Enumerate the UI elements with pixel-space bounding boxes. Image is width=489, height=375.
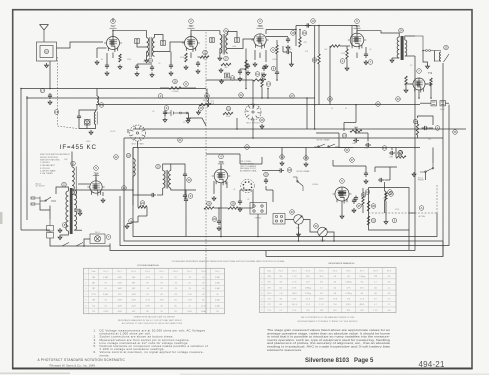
ground battery: [187, 116, 191, 121]
wire: [213, 181, 215, 194]
wire V2 plate to T2: [191, 31, 220, 35]
ground: [197, 110, 201, 115]
ground R1: [118, 65, 122, 70]
capacitor: [365, 143, 371, 147]
label socket note: [240, 160, 257, 173]
svg-text:33: 33: [291, 210, 294, 214]
resistor R38 reference: [388, 190, 393, 195]
ground V3 cathode: [253, 62, 257, 67]
svg-text:23: 23: [157, 164, 160, 168]
tube V8 reference: [417, 69, 422, 74]
wire: [206, 89, 208, 99]
resistor R21b reference: [226, 106, 231, 111]
resistor: [245, 60, 247, 70]
svg-text:Pin 1: Pin 1: [279, 270, 283, 272]
padder trimmer C6b: [85, 120, 91, 126]
ground C19: [220, 79, 224, 84]
IF transformer T2 primary: [220, 35, 222, 54]
junction: [298, 240, 300, 242]
capacitor C8 reference: [271, 66, 276, 71]
svg-text:Pin 2: Pin 2: [292, 270, 296, 272]
svg-text:4.7: 4.7: [320, 287, 323, 289]
wire: [220, 164, 222, 170]
wire C11 tap: [137, 44, 147, 48]
wire: [303, 220, 317, 233]
junction: [20, 88, 22, 90]
svg-text:40: 40: [246, 145, 249, 149]
wire: [298, 224, 300, 241]
svg-text:7B7: 7B7: [188, 24, 194, 28]
wire: [395, 148, 397, 158]
svg-text:103V: 103V: [187, 311, 192, 313]
svg-text:11: 11: [256, 72, 259, 76]
wire: [184, 178, 186, 193]
svg-text:103V: 103V: [117, 277, 122, 279]
ground C20: [238, 77, 242, 82]
tube V5 7B8: [87, 177, 104, 195]
wire: [97, 47, 107, 49]
IF transformer T1 secondary: [152, 38, 154, 57]
wire left rail: [20, 89, 22, 231]
wire: [339, 147, 353, 149]
wire: [252, 118, 254, 138]
ground T4 sec: [78, 211, 82, 216]
capacitor C38 reference: [357, 204, 362, 209]
svg-text:22: 22: [204, 51, 207, 55]
svg-text:13: 13: [383, 146, 386, 150]
capacitor C35 reference: [398, 151, 403, 156]
node 13: [382, 146, 387, 151]
wire AVC line: [206, 79, 253, 81]
svg-text:24: 24: [400, 28, 403, 32]
wire: [137, 148, 139, 208]
wire: [266, 189, 273, 191]
resistor: [185, 53, 187, 62]
wire: [299, 30, 301, 38]
phono jack plate J2: [250, 203, 267, 215]
svg-text:16: 16: [174, 80, 177, 84]
svg-text:Pin 5: Pin 5: [333, 270, 337, 272]
svg-text:20: 20: [331, 108, 333, 110]
wire: [420, 102, 431, 104]
svg-text:150: 150: [320, 310, 323, 312]
tube V4 7C5: [348, 30, 367, 50]
wire T3 to rail: [414, 56, 416, 105]
wire: [406, 83, 413, 85]
svg-text:7: 7: [261, 310, 262, 312]
ground T3: [390, 58, 394, 63]
tube V1 reference: [111, 19, 116, 24]
wire: [327, 232, 334, 241]
resistor: [200, 56, 209, 58]
junction: [261, 97, 263, 99]
svg-text:2.2: 2.2: [388, 304, 391, 306]
ground S5: [412, 172, 416, 177]
capacitor: [423, 126, 429, 130]
wire: [102, 192, 104, 196]
wire: [160, 87, 169, 89]
svg-text:Pin 7: Pin 7: [187, 271, 191, 273]
node 31: [345, 148, 350, 153]
ground V5: [101, 198, 105, 203]
svg-text:Tube: Tube: [267, 270, 271, 272]
coil: [397, 37, 399, 58]
scan smudge bottom: [0, 373, 70, 375]
svg-text:103V: 103V: [131, 294, 136, 296]
antenna: [40, 25, 49, 43]
svg-text:29: 29: [261, 118, 264, 122]
junction: [322, 240, 324, 242]
resistor R28 reference: [342, 133, 347, 138]
coil: [74, 190, 76, 209]
junction: [422, 50, 424, 52]
resistor R4 reference: [203, 50, 208, 55]
wire riser: [306, 98, 308, 129]
resistor: [396, 156, 406, 158]
svg-text:.05: .05: [203, 59, 205, 61]
wire: [298, 240, 300, 242]
svg-text:.0005: .0005: [86, 141, 90, 143]
tube V3 7B6: [251, 34, 268, 49]
wire B+ top: [296, 25, 352, 27]
svg-text:-4.7V: -4.7V: [145, 300, 150, 302]
capacitor C27 reference: [212, 217, 217, 222]
resistor R29 reference: [140, 201, 145, 206]
svg-text:26: 26: [329, 97, 332, 101]
wire: [425, 84, 431, 86]
svg-text:3: 3: [85, 288, 86, 290]
svg-text:2: 2: [85, 282, 86, 284]
svg-text:6.3AC: 6.3AC: [215, 281, 221, 284]
wire T5 top: [163, 164, 185, 172]
coil: [72, 167, 74, 195]
wire: [338, 133, 340, 148]
capacitor C12 trimmer: [161, 41, 166, 46]
svg-text:.0082: .0082: [389, 157, 393, 159]
svg-text:A: A: [421, 206, 423, 210]
svg-text:IF=455 KC: IF=455 KC: [60, 144, 97, 151]
svg-text:42: 42: [115, 155, 118, 159]
wire: [423, 51, 428, 65]
svg-text:7B8: 7B8: [92, 277, 95, 279]
ground C27: [217, 226, 221, 231]
coil: [74, 211, 76, 230]
svg-text:18: 18: [127, 153, 130, 157]
node 37: [350, 158, 355, 163]
ground R26: [404, 88, 408, 93]
ground V1 grid: [95, 60, 99, 65]
svg-text:4: 4: [85, 294, 86, 296]
switch SW2 line: [62, 243, 83, 247]
svg-text:6.: 6.: [94, 350, 97, 354]
wire: [261, 73, 263, 79]
tube V6 7B8: [212, 166, 231, 186]
ground C6: [135, 72, 139, 77]
label stage gain paragraph: [267, 328, 391, 352]
svg-text:4.7: 4.7: [374, 304, 377, 306]
svg-text:Pin 5: Pin 5: [159, 271, 163, 273]
svg-text:MUTE 2 REAR: MUTE 2 REAR: [317, 139, 330, 142]
transformer T1 reference: [148, 58, 153, 63]
tube V7 grid shading: [338, 192, 346, 195]
wire: [374, 167, 376, 172]
node 40: [245, 145, 250, 150]
wire: [384, 179, 390, 181]
capacitor: [353, 138, 359, 142]
capacitor: [105, 63, 109, 69]
wire gang line through table: [205, 258, 207, 314]
coil: [133, 159, 135, 177]
battery B1: [165, 110, 188, 117]
wire: [405, 85, 407, 88]
coil L1 reference: [44, 49, 49, 54]
junction: [314, 128, 316, 130]
svg-text:4.7: 4.7: [374, 282, 377, 284]
resistor R11 reference: [255, 72, 260, 77]
svg-text:13: 13: [55, 110, 58, 114]
node 2: [158, 94, 163, 99]
coil L2 reference: [205, 94, 210, 99]
wire: [240, 68, 246, 70]
AC plug P1: [31, 197, 45, 206]
node 43: [122, 186, 127, 191]
svg-text:2 M: 2 M: [347, 299, 351, 301]
wire: [162, 188, 164, 195]
svg-text:5.: 5.: [94, 344, 97, 348]
capacitor: [183, 193, 187, 199]
junction: [220, 236, 222, 238]
wire: [385, 201, 387, 220]
svg-text:.002: .002: [324, 49, 327, 51]
connector interlock: [47, 219, 54, 238]
tube V2 reference: [189, 19, 194, 24]
junction: [430, 97, 432, 99]
svg-text:1.0 K: 1.0 K: [333, 299, 338, 301]
wire: [340, 45, 350, 47]
svg-text:SWITCH POSITIONS:: SWITCH POSITIONS:: [40, 160, 60, 162]
wire: [346, 46, 348, 49]
IF transformer T5 core: [166, 170, 167, 189]
wire: [133, 194, 150, 196]
wire antenna return: [49, 61, 51, 89]
wire: [422, 127, 423, 129]
svg-text:Pin 9: Pin 9: [215, 271, 219, 273]
svg-text:VOLTAGE AND RESISTANCE READING: VOLTAGE AND RESISTANCE READINGS TAKEN WI…: [172, 260, 286, 263]
ground interlock: [58, 228, 62, 233]
svg-text:6.3AC: 6.3AC: [103, 293, 109, 296]
svg-text:17: 17: [267, 82, 270, 86]
junction: [318, 25, 320, 27]
ground C44: [238, 207, 242, 212]
switch S5 phono-radio: [420, 163, 434, 173]
svg-text:7B7: 7B7: [92, 288, 95, 290]
potentiometer R31 reference: [314, 224, 319, 229]
node 42: [114, 155, 119, 160]
svg-text:1.1 K: 1.1 K: [319, 304, 324, 306]
wire heater stub 357: [356, 53, 358, 59]
svg-text:10: 10: [366, 190, 369, 194]
transformer T5 reference: [156, 164, 161, 169]
wire: [252, 80, 254, 89]
node 32: [376, 102, 381, 107]
junction: [355, 104, 357, 106]
svg-text:6.3AC: 6.3AC: [215, 287, 221, 290]
wire V1 plate lead: [112, 30, 114, 37]
svg-text:6.3AC: 6.3AC: [215, 276, 221, 279]
resistor: [318, 54, 320, 64]
wire: [429, 127, 433, 129]
svg-text:103V: 103V: [117, 282, 122, 284]
wire: [305, 148, 307, 161]
wire: [375, 166, 397, 168]
capacitor: [150, 193, 156, 197]
svg-text:1- PHONO: 1- PHONO: [40, 162, 50, 164]
capacitor C37 reference: [264, 172, 269, 177]
wire: [181, 112, 186, 114]
wire tuning gang dashed link: [205, 32, 207, 258]
svg-text:substituted for measurements.: substituted for measurements.: [267, 348, 302, 352]
svg-text:470: 470: [333, 310, 336, 312]
coil L3 reference: [99, 103, 104, 108]
wire bus C: [133, 128, 466, 130]
tube V6 reference: [219, 154, 224, 159]
switch S2 mute2: [314, 144, 339, 147]
svg-text:1 MEG: 1 MEG: [272, 59, 278, 61]
svg-text:.05: .05: [152, 111, 154, 113]
wire antenna to V1 grid: [57, 42, 104, 48]
node 5: [392, 218, 397, 223]
capacitor: [163, 110, 167, 116]
svg-text:6: 6: [261, 304, 262, 306]
wire: [430, 86, 432, 98]
wire T3 primary return: [392, 57, 399, 59]
resistor R14 reference: [312, 58, 317, 63]
resistor: [367, 201, 369, 211]
wire bottom bus 3: [120, 105, 449, 246]
wire: [240, 163, 262, 165]
svg-text:12: 12: [399, 150, 402, 154]
resistor: [346, 49, 348, 59]
svg-text:31: 31: [346, 148, 349, 152]
ground C18: [286, 45, 290, 50]
capacitor C11 trimmer: [135, 39, 140, 44]
svg-text:Tube: Tube: [91, 271, 95, 273]
svg-text:ments.: ments.: [100, 353, 110, 357]
pilot lamp PL1: [90, 234, 105, 244]
svg-text:Pin 7: Pin 7: [360, 270, 364, 272]
wire: [351, 26, 353, 30]
svg-text:103V: 103V: [117, 305, 122, 307]
ground C23: [364, 60, 368, 65]
junction: [83, 245, 85, 247]
junction: [112, 30, 114, 32]
svg-text:7Y4: 7Y4: [92, 311, 95, 313]
resistor R22 reference: [340, 59, 345, 64]
label notes list: [94, 328, 208, 357]
svg-text:A PHOTOFACT STANDARD NOTATION: A PHOTOFACT STANDARD NOTATION SCHEMATIC: [38, 358, 126, 362]
wire T4 sec: [74, 189, 96, 191]
svg-text:21.5V: 21.5V: [201, 305, 207, 307]
coil: [385, 191, 387, 200]
svg-text:820: 820: [347, 310, 350, 312]
svg-text:Pin 3: Pin 3: [131, 271, 135, 273]
wire: [362, 188, 364, 196]
wire: [206, 153, 240, 155]
junction: [355, 132, 357, 134]
wire: [170, 52, 172, 64]
resistor R28b reference: [231, 201, 236, 206]
wire: [198, 56, 201, 58]
capacitor: [354, 196, 358, 202]
svg-text:PILOT: PILOT: [95, 232, 101, 234]
svg-text:4.7Meg: 4.7Meg: [345, 293, 351, 295]
wire: [132, 148, 134, 160]
svg-text:17: 17: [41, 89, 44, 93]
ground R3: [184, 65, 188, 70]
svg-text:7B8: 7B8: [219, 160, 224, 164]
coil: [405, 40, 407, 56]
wire speaker rail: [442, 63, 444, 138]
svg-text:7C6: 7C6: [267, 299, 270, 301]
svg-text:*DRAWN WITH VACUUM TUBE VOLTME: *DRAWN WITH VACUUM TUBE VOLTMETER: [133, 315, 175, 318]
svg-text:Volume control at maximum, no: Volume control at maximum, no signal app…: [100, 350, 204, 354]
svg-text:.00025: .00025: [287, 49, 292, 51]
svg-text:470: 470: [306, 310, 309, 312]
wire to pilot: [50, 238, 110, 246]
tube V2 7B7: [182, 33, 200, 52]
output transformer T3 core: [401, 36, 404, 60]
wire: [236, 118, 238, 129]
capacitor C6b reference: [85, 120, 90, 125]
svg-text:21: 21: [227, 107, 230, 111]
capacitor C17: [48, 93, 52, 99]
svg-text:103V: 103V: [117, 311, 122, 313]
node 38: [304, 156, 309, 161]
wire: [146, 207, 148, 216]
ground volume: [297, 232, 301, 237]
svg-text:32: 32: [377, 102, 380, 106]
svg-text:14: 14: [414, 120, 417, 124]
wire: [265, 251, 267, 257]
svg-text:25: 25: [445, 46, 448, 50]
wire: [239, 190, 241, 199]
wire right rail inner: [414, 105, 416, 251]
wire: [252, 190, 254, 208]
wire: [417, 121, 419, 124]
svg-text:Pin 8: Pin 8: [373, 270, 377, 272]
svg-text:43: 43: [123, 186, 126, 190]
svg-text:.01: .01: [233, 189, 235, 191]
svg-text:1.: 1.: [94, 328, 97, 332]
wire loop output stage: [369, 188, 410, 231]
tube V7 reference: [340, 179, 345, 184]
label VC1-2 front: [418, 178, 425, 182]
junction: [295, 29, 297, 31]
junction: [267, 88, 269, 90]
ground C28: [163, 118, 167, 123]
ground: [260, 124, 264, 129]
ground C7: [150, 73, 154, 78]
svg-text:6: 6: [85, 305, 86, 307]
svg-text:19: 19: [343, 133, 346, 137]
resistor R17b reference: [224, 56, 229, 61]
wire: [96, 105, 98, 110]
wire: [74, 210, 82, 212]
wire: [409, 212, 415, 214]
svg-text:7Y4: 7Y4: [267, 310, 270, 312]
speaker voice coil: [440, 52, 442, 61]
svg-text:RESISTANCE MEASURED IN THE D-C: RESISTANCE MEASURED IN THE D-C CIRCUITS …: [118, 319, 183, 322]
